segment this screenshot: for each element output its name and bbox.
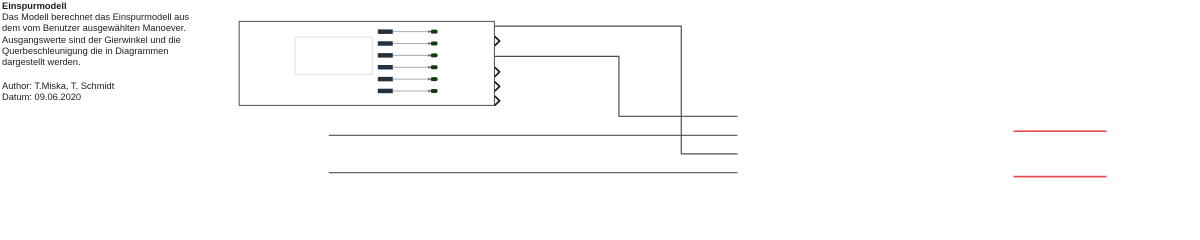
output port chevron 2 xyxy=(495,68,500,77)
annotation text: author and date xyxy=(2,81,114,102)
output port chevron 1 xyxy=(495,37,500,46)
output port chevron 3 xyxy=(495,82,500,91)
annotation text: model description xyxy=(2,1,189,69)
wire B (port 3: right, down, right) xyxy=(495,56,738,116)
signal row 1 (inport block, connector line, terminator) xyxy=(378,29,438,34)
output port chevron 4 xyxy=(495,96,500,105)
red signal line 2 xyxy=(1014,176,1107,178)
signal row 2 (inport block, connector line, terminator) xyxy=(378,41,438,46)
signal row 4 (inport block, connector line, terminator) xyxy=(378,65,438,70)
signal row 5 (inport block, connector line, terminator) xyxy=(378,77,438,82)
subsystem block (outer box) xyxy=(239,21,494,105)
wire C (long horizontal) xyxy=(329,134,738,136)
signal row 6 (inport block, connector line, terminator) xyxy=(378,89,438,94)
signal row 3 (inport block, connector line, terminator) xyxy=(378,53,438,58)
wire A (port 1: right, down, right) xyxy=(495,26,738,154)
wire D (long horizontal) xyxy=(329,172,738,174)
red signal line 1 xyxy=(1014,130,1107,132)
inner empty rectangle xyxy=(295,37,372,74)
